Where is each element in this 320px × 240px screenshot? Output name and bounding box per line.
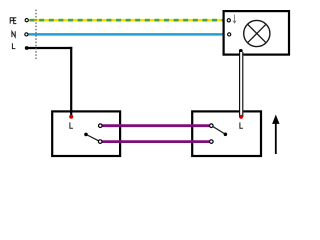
wire L (black, vertical drop to switch S1) [70, 47, 72, 117]
direction arrow (up) [272, 115, 279, 154]
lamp bottom terminal (filled dot) [239, 49, 243, 53]
switch box S2 [192, 111, 261, 156]
S2 terminal L (red dot) [239, 115, 243, 119]
traveller wire 2 (purple, bottom) [102, 140, 209, 143]
dotted boundary line [35, 10, 37, 60]
net label PE [10, 18, 16, 24]
S1 common (filled dot) [84, 133, 88, 137]
S2 terminal down (open circle) [210, 140, 214, 144]
S2 terminal up (open circle) [210, 124, 214, 128]
terminal PE (open circle) [25, 19, 28, 22]
wire from S1 L terminal (black over border) [70, 110, 72, 117]
net label L [12, 43, 15, 48]
lamp terminal N (open circle) [228, 33, 231, 36]
terminal N (open circle) [25, 33, 28, 36]
wire lamp to S2 (white sheathed, double line) [239, 52, 243, 117]
S2 switch lever [213, 127, 225, 135]
S1 terminal L (red dot) [69, 115, 73, 119]
S1 terminal up (open circle) [99, 124, 103, 128]
switch box S1 [52, 111, 120, 156]
terminal L (filled dot) [25, 46, 29, 50]
traveller wire 1 (purple, top) [102, 124, 209, 127]
lamp symbol E1 (circle with X) [244, 20, 270, 46]
wire N (blue) [28, 33, 223, 36]
S1 switch lever [86, 134, 98, 140]
wire L (black, horizontal) [27, 47, 72, 49]
S1 label L [70, 122, 73, 128]
net label N [12, 31, 15, 37]
earth arrow (down) [233, 15, 237, 24]
S1 terminal down (open circle) [98, 140, 102, 144]
wire PE (green/yellow) [28, 19, 223, 22]
S2 common (filled dot) [224, 133, 228, 137]
luminaire box E1 [224, 11, 289, 55]
S2 label L [240, 122, 243, 128]
lamp terminal PE (open circle) [227, 19, 230, 22]
